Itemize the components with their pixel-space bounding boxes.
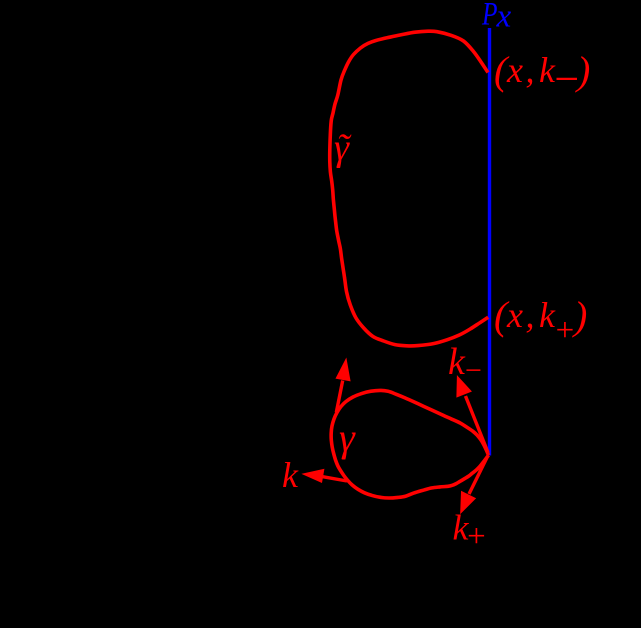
svg-text:x: x — [506, 295, 523, 335]
svg-text:γ: γ — [339, 415, 356, 460]
svg-text:k: k — [282, 455, 299, 495]
svg-text:x: x — [496, 0, 512, 35]
svg-text:): ) — [572, 293, 587, 338]
svg-text:): ) — [575, 48, 590, 93]
svg-text:+: + — [465, 519, 487, 555]
svg-text:+: + — [554, 313, 576, 349]
svg-text:P: P — [481, 0, 497, 33]
svg-text:x: x — [506, 50, 523, 90]
svg-text:−: − — [463, 354, 483, 387]
svg-text:,: , — [526, 50, 535, 90]
svg-text:,: , — [526, 295, 535, 335]
